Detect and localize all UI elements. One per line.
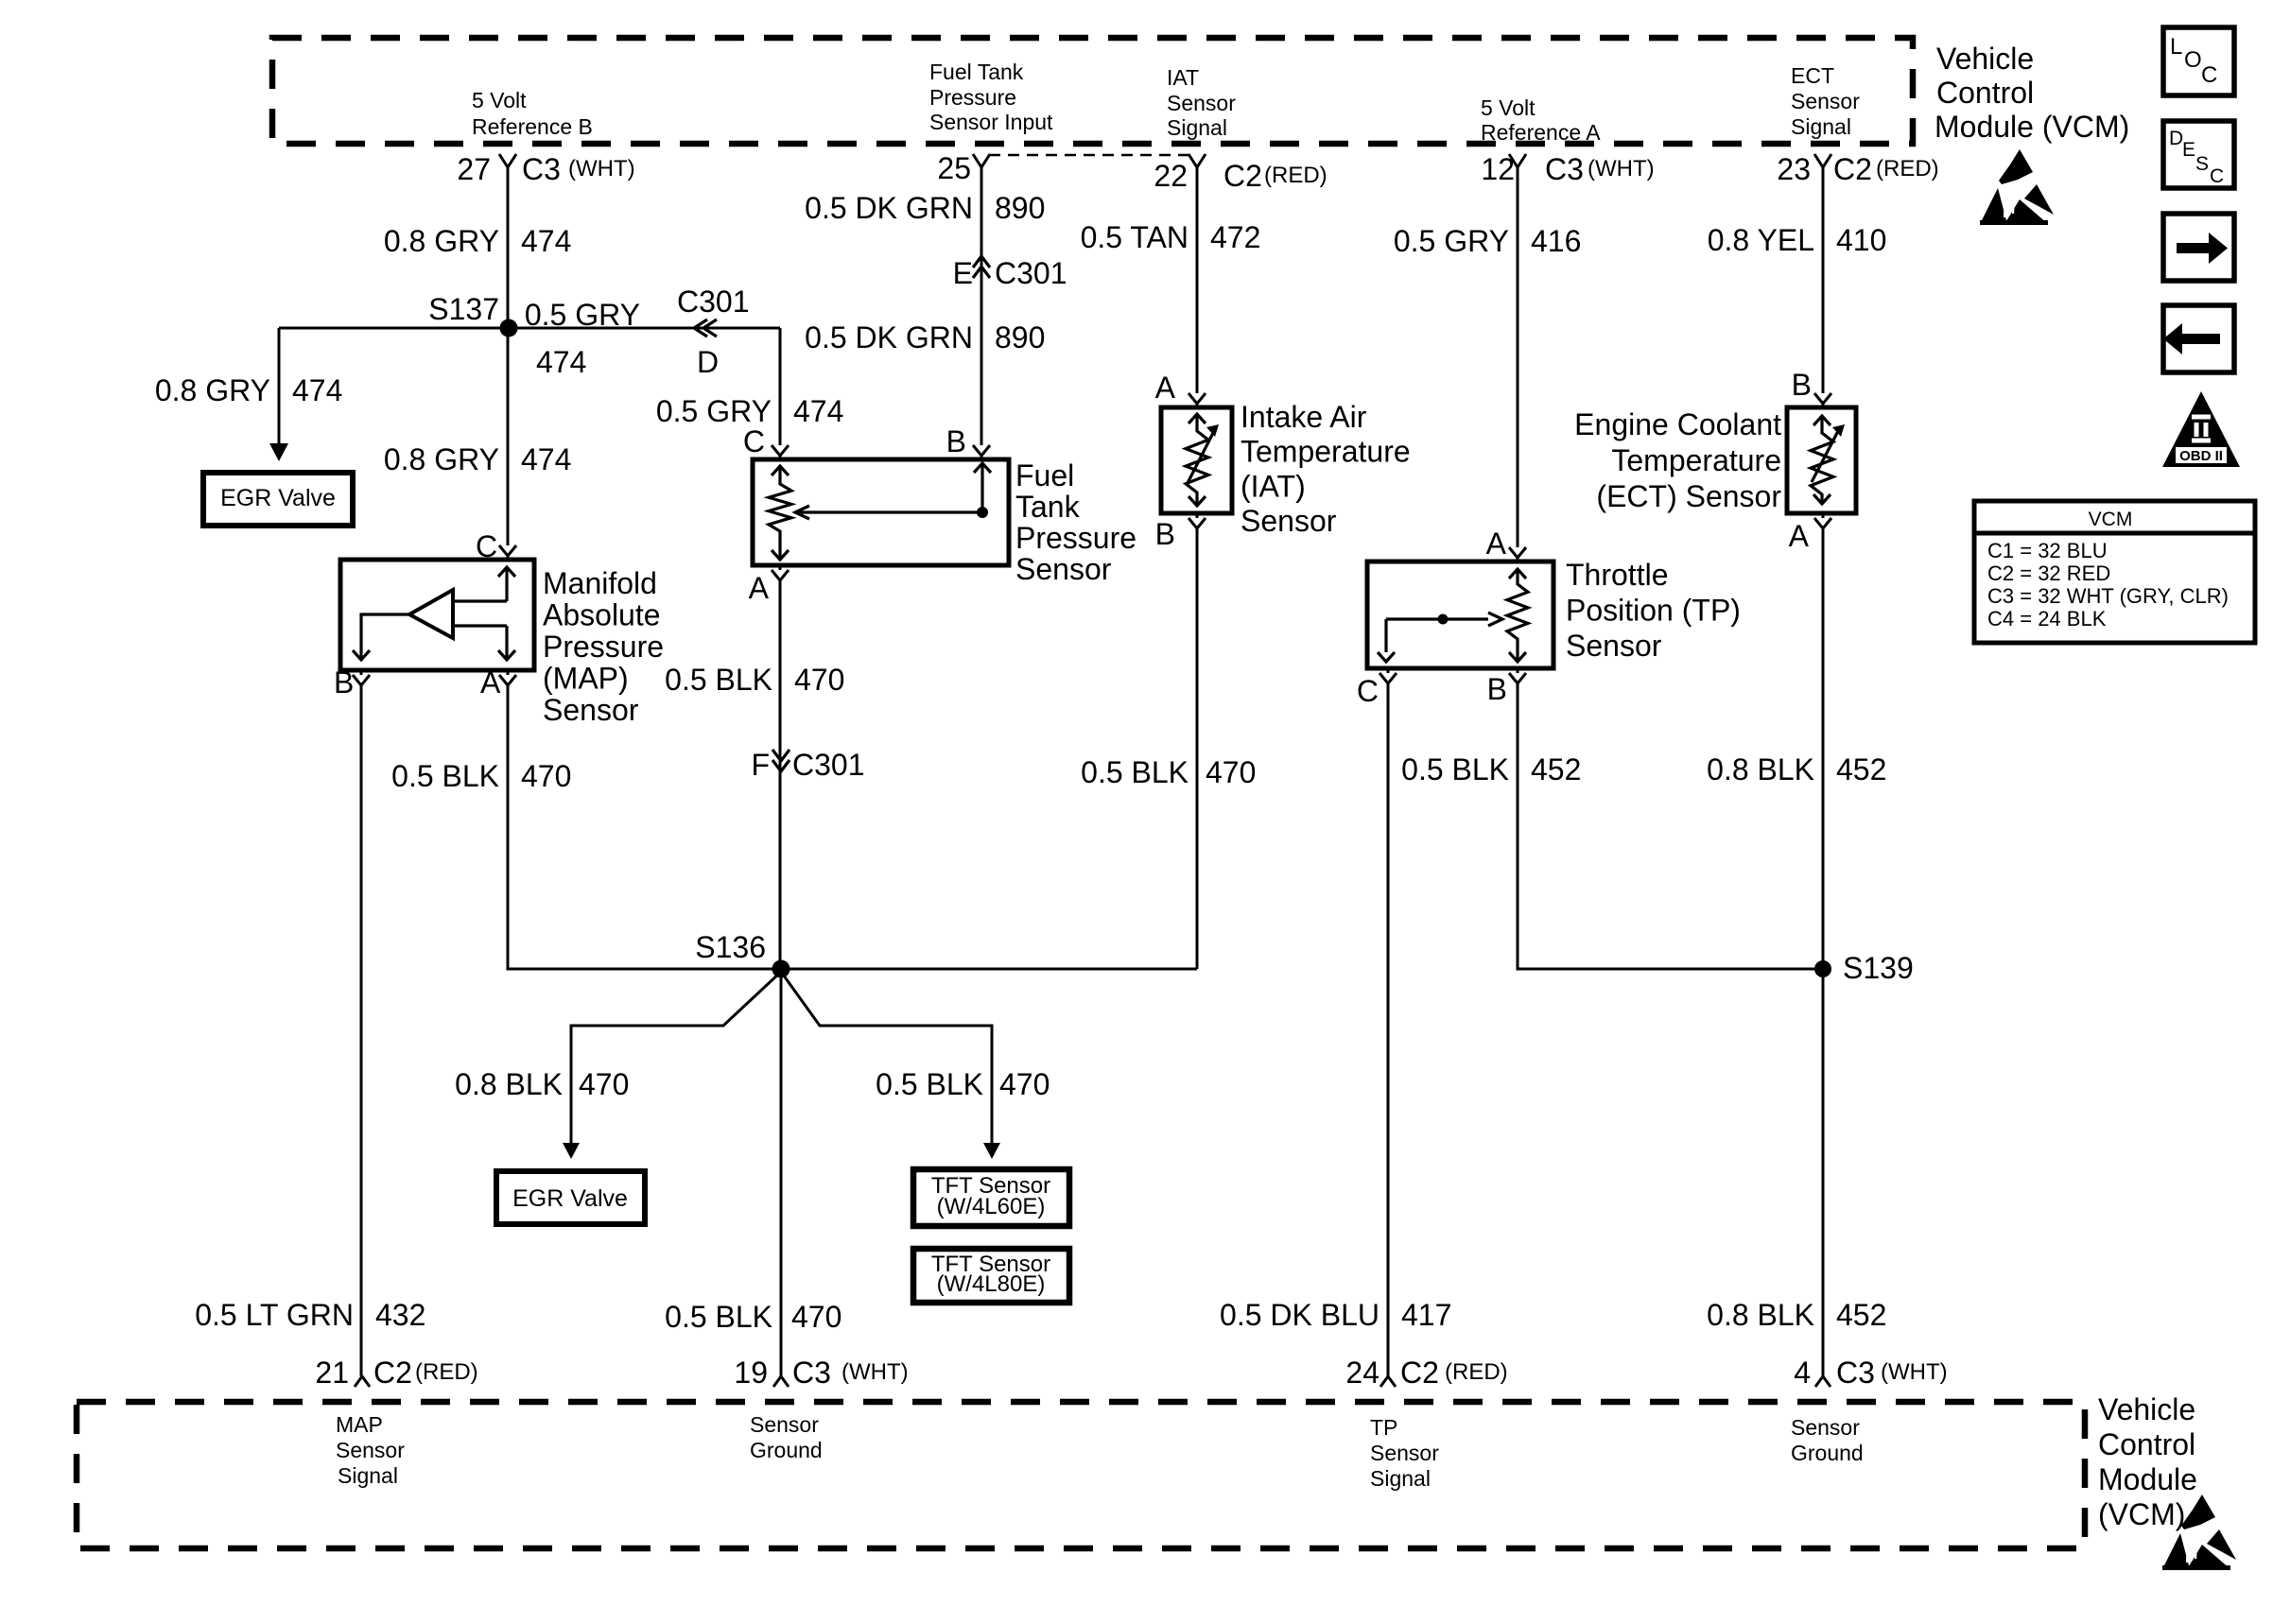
svg-text:416: 416 [1531,224,1581,258]
svg-text:Sensor: Sensor [543,693,639,727]
svg-text:452: 452 [1836,1298,1886,1332]
svg-text:Ground: Ground [750,1438,823,1462]
svg-text:A: A [480,665,501,700]
svg-text:O: O [2184,47,2202,73]
svg-text:12: 12 [1481,152,1515,186]
svg-text:S: S [2195,153,2209,175]
svg-text:C: C [2201,62,2217,88]
svg-text:452: 452 [1836,752,1886,786]
svg-text:0.5 BLK: 0.5 BLK [391,759,499,793]
svg-text:(RED): (RED) [1445,1359,1508,1385]
svg-text:C: C [1357,674,1379,708]
svg-text:C2: C2 [373,1356,412,1390]
svg-text:Sensor: Sensor [1791,89,1860,113]
svg-text:Signal: Signal [1370,1466,1431,1491]
svg-text:C3: C3 [792,1356,831,1390]
svg-text:Absolute: Absolute [543,598,661,632]
svg-text:Temperature: Temperature [1611,443,1781,477]
svg-text:(W/4L80E): (W/4L80E) [937,1271,1046,1297]
svg-text:EGR Valve: EGR Valve [512,1185,628,1212]
svg-text:5 Volt: 5 Volt [472,88,527,112]
svg-text:C4 = 24 BLK: C4 = 24 BLK [1987,607,2107,631]
svg-text:(RED): (RED) [1876,156,1939,181]
svg-text:Manifold: Manifold [543,566,657,600]
svg-text:0.8 GRY: 0.8 GRY [155,373,270,407]
svg-text:C2: C2 [1833,152,1872,186]
svg-text:474: 474 [292,373,342,407]
svg-text:B: B [946,424,966,458]
svg-text:C2: C2 [1223,159,1262,193]
svg-text:B: B [1792,368,1812,402]
svg-text:E: E [953,256,973,290]
svg-text:(IAT): (IAT) [1241,469,1306,503]
svg-text:OBD II: OBD II [2179,448,2223,464]
svg-text:Fuel: Fuel [1015,458,1074,492]
svg-text:Sensor: Sensor [336,1438,405,1462]
svg-text:S136: S136 [695,930,766,964]
svg-text:Reference A: Reference A [1481,120,1601,145]
svg-text:Vehicle: Vehicle [1936,42,2034,76]
svg-text:C: C [743,424,765,458]
svg-text:474: 474 [521,224,571,258]
svg-text:Sensor: Sensor [1241,504,1337,538]
svg-text:A: A [1789,519,1810,553]
svg-text:(ECT) Sensor: (ECT) Sensor [1596,479,1781,513]
svg-text:Signal: Signal [1167,115,1227,140]
svg-text:0.5 DK BLU: 0.5 DK BLU [1220,1298,1379,1332]
svg-text:0.5 GRY: 0.5 GRY [1394,224,1509,258]
svg-text:F: F [751,748,770,782]
svg-text:A: A [749,571,770,605]
svg-text:0.5 TAN: 0.5 TAN [1081,220,1189,254]
svg-text:(WHT): (WHT) [1881,1359,1948,1385]
svg-text:0.8 GRY: 0.8 GRY [384,224,499,258]
svg-text:474: 474 [793,394,843,428]
svg-text:VCM: VCM [2089,509,2133,530]
svg-text:470: 470 [521,759,571,793]
svg-text:25: 25 [937,151,971,185]
svg-text:Ground: Ground [1791,1441,1864,1465]
svg-text:C2 = 32 RED: C2 = 32 RED [1987,561,2110,585]
svg-text:0.5 LT GRN: 0.5 LT GRN [195,1298,354,1332]
svg-text:470: 470 [794,663,844,697]
svg-text:0.5 GRY: 0.5 GRY [656,394,772,428]
svg-text:0.5 BLK: 0.5 BLK [1401,752,1509,786]
svg-text:E: E [2182,139,2195,161]
svg-text:(W/4L60E): (W/4L60E) [937,1194,1046,1219]
svg-text:(RED): (RED) [1264,163,1327,188]
svg-text:L: L [2170,34,2182,60]
svg-text:C: C [476,529,497,563]
svg-text:Reference B: Reference B [472,114,593,139]
svg-text:Control: Control [1936,76,2034,110]
svg-text:C3: C3 [522,152,561,186]
svg-text:Sensor: Sensor [1566,629,1662,663]
svg-text:0.8 GRY: 0.8 GRY [384,442,499,476]
svg-text:Pressure: Pressure [1015,521,1136,555]
svg-text:0.5 BLK: 0.5 BLK [665,1300,772,1334]
svg-text:Position (TP): Position (TP) [1566,594,1741,628]
svg-text:410: 410 [1836,223,1886,257]
svg-text:C2: C2 [1400,1356,1439,1390]
svg-text:Module (VCM): Module (VCM) [1935,110,2129,144]
svg-text:24: 24 [1345,1356,1379,1390]
svg-text:S139: S139 [1843,951,1914,985]
svg-text:Fuel Tank: Fuel Tank [929,60,1024,84]
svg-text:Signal: Signal [338,1463,398,1488]
svg-text:21: 21 [315,1356,349,1390]
svg-text:472: 472 [1210,220,1260,254]
svg-text:452: 452 [1531,752,1581,786]
svg-text:(WHT): (WHT) [842,1359,909,1385]
svg-text:Pressure: Pressure [929,85,1016,110]
svg-text:417: 417 [1401,1298,1451,1332]
svg-text:Signal: Signal [1791,114,1851,139]
svg-text:0.8 BLK: 0.8 BLK [1707,1298,1814,1332]
svg-text:MAP: MAP [336,1412,383,1437]
svg-text:470: 470 [579,1067,629,1101]
svg-text:432: 432 [375,1298,425,1332]
svg-text:470: 470 [791,1300,842,1334]
svg-text:Sensor: Sensor [1791,1415,1860,1440]
svg-text:Sensor Input: Sensor Input [929,110,1053,134]
svg-text:A: A [1486,527,1507,561]
svg-text:0.8 YEL: 0.8 YEL [1708,223,1814,257]
svg-text:0.5 DK GRN: 0.5 DK GRN [805,320,973,354]
svg-text:890: 890 [995,320,1045,354]
svg-text:(WHT): (WHT) [1588,156,1655,181]
svg-text:19: 19 [734,1356,768,1390]
svg-text:D: D [2169,128,2183,149]
svg-text:(VCM): (VCM) [2098,1497,2185,1531]
svg-text:Throttle: Throttle [1566,558,1668,592]
svg-text:ECT: ECT [1791,63,1834,88]
svg-text:470: 470 [999,1067,1050,1101]
svg-text:B: B [334,665,354,700]
svg-text:(RED): (RED) [415,1359,478,1385]
svg-text:Intake Air: Intake Air [1241,400,1367,434]
svg-text:C301: C301 [995,256,1067,290]
svg-text:23: 23 [1777,152,1811,186]
svg-text:0.5 DK GRN: 0.5 DK GRN [805,191,973,225]
svg-text:Vehicle: Vehicle [2098,1392,2195,1426]
svg-text:0.5 BLK: 0.5 BLK [876,1067,983,1101]
svg-text:474: 474 [521,442,571,476]
svg-text:C3: C3 [1836,1356,1875,1390]
svg-text:Sensor: Sensor [1370,1441,1439,1465]
svg-text:0.5 GRY: 0.5 GRY [525,298,640,332]
svg-text:EGR Valve: EGR Valve [220,485,336,511]
svg-text:(WHT): (WHT) [568,156,635,181]
svg-text:A: A [1155,371,1176,405]
svg-text:C3: C3 [1545,152,1584,186]
svg-text:B: B [1155,517,1175,551]
svg-text:5 Volt: 5 Volt [1481,95,1536,120]
svg-text:(MAP): (MAP) [543,662,629,696]
svg-text:0.8 BLK: 0.8 BLK [1707,752,1814,786]
svg-text:Pressure: Pressure [543,630,664,664]
svg-text:Sensor: Sensor [750,1412,819,1437]
svg-text:IAT: IAT [1167,65,1199,90]
svg-text:C3 = 32 WHT (GRY, CLR): C3 = 32 WHT (GRY, CLR) [1987,584,2229,608]
svg-text:Module: Module [2098,1462,2197,1496]
svg-text:C301: C301 [677,285,750,319]
svg-text:C: C [2210,165,2224,187]
svg-text:Temperature: Temperature [1241,435,1411,469]
svg-text:C1 = 32 BLU: C1 = 32 BLU [1987,539,2108,562]
svg-text:0.8 BLK: 0.8 BLK [455,1067,563,1101]
svg-text:Control: Control [2098,1427,2195,1461]
svg-text:27: 27 [457,152,491,186]
svg-text:TP: TP [1370,1415,1397,1440]
svg-text:470: 470 [1206,755,1256,789]
svg-text:S137: S137 [428,292,499,326]
svg-text:D: D [697,345,719,379]
svg-text:0.5 BLK: 0.5 BLK [1081,755,1189,789]
svg-text:Sensor: Sensor [1015,552,1112,586]
svg-text:4: 4 [1794,1356,1811,1390]
svg-text:0.5 BLK: 0.5 BLK [665,663,772,697]
svg-text:Sensor: Sensor [1167,91,1236,115]
svg-text:C301: C301 [792,748,865,782]
svg-text:474: 474 [536,345,586,379]
svg-text:B: B [1487,672,1507,706]
svg-text:Tank: Tank [1015,490,1081,524]
svg-text:22: 22 [1154,159,1188,193]
svg-text:890: 890 [995,191,1045,225]
svg-text:Engine Coolant: Engine Coolant [1574,407,1781,441]
